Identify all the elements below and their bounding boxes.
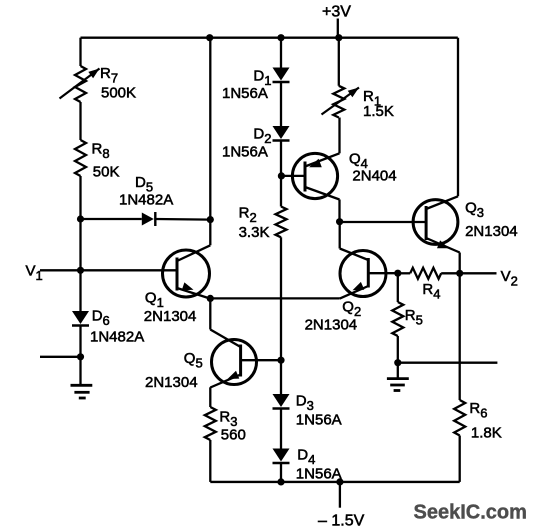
svg-text:SeekIC.com: SeekIC.com [414,502,527,524]
svg-text:1.8K: 1.8K [471,425,502,442]
svg-text:+3V: +3V [322,4,351,21]
svg-text:1N56A: 1N56A [222,144,268,161]
svg-text:500K: 500K [101,85,136,102]
svg-text:2N1304: 2N1304 [465,223,518,240]
svg-text:1N482A: 1N482A [90,329,144,346]
svg-text:2N1304: 2N1304 [145,374,198,391]
svg-text:– 1.5V: – 1.5V [318,513,365,530]
svg-text:2N1304: 2N1304 [144,308,197,325]
svg-text:3.3K: 3.3K [239,224,270,241]
svg-text:1N56A: 1N56A [296,466,342,483]
svg-text:1.5K: 1.5K [363,103,394,120]
svg-text:560: 560 [221,427,246,444]
svg-text:50K: 50K [93,164,120,181]
svg-text:1N56A: 1N56A [296,412,342,429]
svg-text:2N1304: 2N1304 [305,317,358,334]
svg-text:2N404: 2N404 [352,168,396,185]
svg-text:1N56A: 1N56A [222,85,268,102]
svg-text:1N482A: 1N482A [119,192,173,209]
